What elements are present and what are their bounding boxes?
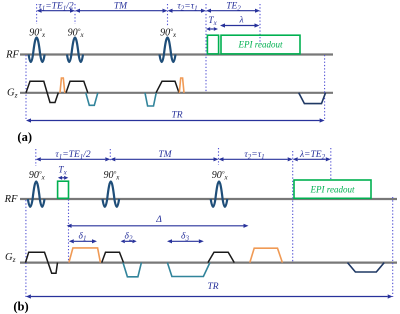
- dotted line pulse2 (a): [74, 4, 76, 24]
- Gz axis line (b): [20, 262, 397, 264]
- RF axis line (b): [20, 198, 397, 200]
- Gz slice-select trapezoid 3 (a): [156, 81, 179, 93]
- svg-text:EPI readout: EPI readout: [310, 185, 355, 195]
- arrow tau2=tau1 (b): [219, 157, 293, 161]
- svg-text:(a): (a): [17, 130, 32, 144]
- arrow tau1=TE1/2 (b): [36, 157, 111, 161]
- Gz slice-select trapezoid 3 (b): [208, 252, 234, 262]
- svg-text:λ: λ: [238, 16, 243, 26]
- svg-text:TE2​: TE2​: [226, 2, 241, 13]
- arrow tau2=tau1 (a): [168, 9, 207, 13]
- svg-text:TM: TM: [158, 150, 172, 160]
- arrow Tx (a): [206, 27, 218, 31]
- Gz orange crusher 2 (a): [179, 78, 184, 93]
- Gz teal spoiler 1 (b): [123, 263, 141, 277]
- arrow TM (a): [75, 9, 168, 13]
- svg-text:Tx​: Tx​: [58, 166, 67, 177]
- dotted line pulse3 (a): [167, 4, 169, 26]
- svg-text:TR: TR: [207, 282, 218, 292]
- dotted line TE2 end (b): [330, 148, 332, 180]
- arrow Tx (b): [58, 176, 68, 180]
- Gz slice-select + rephase trapezoid 1 (a): [26, 81, 58, 102]
- small Tx box (b): [58, 181, 69, 198]
- svg-text:Tx​: Tx​: [208, 16, 217, 27]
- EPI readout box (a): [221, 35, 300, 54]
- svg-text:EPI readout: EPI readout: [238, 40, 283, 50]
- arrow TE2 (a): [206, 9, 260, 13]
- svg-text:Δ: Δ: [155, 215, 162, 225]
- Gz axis line (a): [20, 92, 333, 94]
- Gz readout spoiler (b): [348, 263, 385, 272]
- dotted line diffusion start (b): [68, 200, 70, 263]
- arrow delta3 (b): [167, 239, 204, 243]
- arrow lambda (a): [220, 23, 260, 27]
- svg-text:τ2​=τ1​: τ2​=τ1​: [244, 150, 264, 161]
- svg-text:TR: TR: [171, 111, 182, 121]
- arrow TR (a): [26, 118, 325, 122]
- svg-text:Gz​: Gz​: [7, 88, 18, 100]
- Gz diffusion gradient 1 (b): [69, 248, 101, 263]
- Gz slice-select trapezoid 2 (b): [102, 252, 124, 262]
- Gz slice-select + rephase trapezoid 1 (b): [26, 252, 58, 273]
- Gz diffusion gradient 2 (b): [250, 248, 283, 262]
- arrow delta2 (b): [121, 239, 137, 243]
- Gz orange crusher 1 (a): [60, 78, 65, 93]
- arrow TM (b): [110, 157, 218, 161]
- RF 90-degree sinc pulse 3 (a): [160, 37, 176, 62]
- dotted line TR start (b): [25, 200, 27, 297]
- dotted line pulse2 (b): [109, 149, 111, 162]
- svg-text:90°x: 90°x: [212, 170, 229, 182]
- svg-text:RF: RF: [4, 194, 18, 205]
- arrow lambda=TE2 (b): [293, 157, 331, 161]
- small readout box (a): [207, 35, 218, 54]
- Gz slice-select trapezoid 2 (a): [66, 81, 88, 93]
- Gz TM spoiler (b): [167, 263, 210, 277]
- dotted line TR end (a): [324, 55, 326, 121]
- dotted line TR start (a): [25, 55, 27, 121]
- dotted line TE2 end (a): [259, 4, 261, 44]
- svg-text:τ1​=TE1​/2: τ1​=TE1​/2: [55, 150, 91, 161]
- svg-text:RF: RF: [5, 50, 19, 61]
- RF axis line (a): [20, 53, 333, 55]
- svg-text:λ=TE2​: λ=TE2​: [299, 150, 326, 161]
- arrow tau1=TE1/2 (a): [37, 9, 75, 13]
- RF 90-degree sinc pulse 1 (a): [29, 37, 45, 62]
- Gz teal spoiler 1 (a): [86, 93, 98, 106]
- RF 90-degree sinc pulse 2 (b): [103, 182, 120, 207]
- arrow delta1 (b): [69, 239, 97, 243]
- RF 90-degree sinc pulse 3 (b): [211, 182, 228, 207]
- dotted line EPI start (b): [292, 151, 294, 263]
- dotted line pulse3 (b): [218, 148, 220, 165]
- Gz readout spoiler (a): [299, 93, 326, 104]
- dotted line pulse1 (b): [35, 149, 37, 166]
- dotted line pulse1 (a): [36, 4, 38, 24]
- svg-text:(b): (b): [13, 300, 28, 314]
- svg-text:τ1​=TE1​/2: τ1​=TE1​/2: [38, 2, 74, 13]
- Gz teal spoiler 2 (a): [145, 93, 156, 106]
- svg-text:TM: TM: [114, 2, 128, 12]
- svg-text:90°x: 90°x: [29, 170, 46, 182]
- arrow TR (b): [26, 294, 393, 298]
- svg-text:90°x: 90°x: [103, 170, 120, 182]
- dotted line TR end (b): [392, 197, 394, 297]
- dotted line EPI start (a): [205, 4, 207, 93]
- svg-text:Gz​: Gz​: [5, 252, 16, 264]
- EPI readout box (b): [294, 180, 371, 198]
- svg-text:τ2​=τ1​: τ2​=τ1​: [177, 2, 197, 13]
- arrow Delta (b): [67, 224, 249, 228]
- RF 90-degree sinc pulse 1 (b): [28, 182, 45, 207]
- RF 90-degree sinc pulse 2 (a): [67, 37, 83, 62]
